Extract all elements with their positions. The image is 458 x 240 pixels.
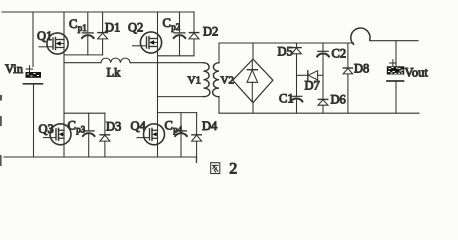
svg-text:Vout: Vout: [405, 66, 429, 80]
capacitor Cp3: [83, 113, 95, 157]
transistor Q3: [44, 124, 72, 145]
wire output top rail left: [219, 42, 354, 44]
capacitor C2: [317, 51, 329, 56]
wire node B leg: [157, 47, 159, 131]
wire Q2 drain: [157, 12, 159, 39]
svg-text:V1: V1: [188, 75, 201, 87]
capacitor C1: [291, 96, 303, 101]
label Cp4: [165, 119, 183, 135]
diode D8: [343, 68, 353, 74]
wire branch3 top: [347, 43, 349, 68]
svg-text:D2: D2: [203, 25, 218, 39]
svg-text:2: 2: [229, 161, 237, 178]
svg-text:Lk: Lk: [107, 66, 122, 80]
caption figure 2: [211, 163, 220, 174]
wire cell1 tee: [64, 54, 103, 56]
svg-text:p2: p2: [171, 22, 180, 32]
inductor loop on rail: [351, 28, 370, 44]
diode D3: [100, 113, 110, 157]
svg-text:Q3: Q3: [39, 122, 54, 136]
wire Q1 drain: [63, 12, 65, 40]
rectifier bridge: [233, 59, 273, 103]
wire cell2 tee: [158, 55, 195, 57]
diode D2: [189, 12, 199, 56]
wire output top rail right: [370, 40, 418, 42]
capacitor Cp4: [175, 113, 187, 157]
wire input left rail upper: [32, 12, 34, 67]
svg-text:D4: D4: [202, 119, 218, 133]
wire branch3 bottom: [347, 74, 349, 113]
label Cp2: [163, 16, 181, 32]
capacitor Cp2: [174, 12, 186, 56]
wire input top rail: [2, 11, 194, 13]
svg-text:C1: C1: [279, 92, 294, 106]
wire branch1 middle: [296, 54, 298, 97]
svg-text:Vin: Vin: [5, 62, 24, 76]
svg-text:C: C: [163, 16, 171, 30]
diode D4: [192, 113, 202, 157]
label Cp3: [68, 119, 86, 135]
svg-text:D5: D5: [278, 45, 293, 59]
inductor Lk: [64, 58, 204, 63]
transistor Q4: [137, 124, 165, 145]
wire Q4 source: [157, 138, 159, 157]
wire Q3 source: [63, 138, 65, 157]
transistor Q1: [39, 33, 68, 54]
wire branch1 top: [296, 43, 298, 48]
svg-text:C2: C2: [332, 47, 347, 61]
diode D5: [292, 48, 302, 54]
svg-text:Q2: Q2: [128, 21, 143, 35]
label Cp1: [69, 17, 87, 33]
battery Vout: [387, 60, 404, 81]
wire bridge bottom lead: [252, 103, 254, 114]
wire primary bottom lead: [158, 96, 204, 98]
wire cell4 tee: [158, 112, 197, 114]
svg-text:C: C: [68, 119, 76, 133]
svg-text:D3: D3: [106, 120, 121, 134]
svg-text:Q4: Q4: [131, 119, 147, 133]
svg-text:D8: D8: [354, 62, 369, 76]
wire secondary bottom lead: [218, 97, 220, 114]
wire output bottom rail: [219, 112, 419, 114]
svg-text:V2: V2: [221, 75, 234, 87]
wire input bottom rail: [4, 156, 197, 158]
svg-text:p4: p4: [173, 125, 183, 135]
wire branch1 bottom: [296, 100, 298, 113]
wire load branch top: [395, 41, 397, 67]
svg-text:p3: p3: [76, 125, 86, 135]
wire input left rail lower: [33, 84, 35, 157]
battery Vin: [24, 66, 43, 84]
svg-text:D7: D7: [305, 79, 320, 93]
diode D1: [98, 12, 108, 55]
svg-text:C: C: [165, 119, 173, 133]
wire branch2 bottom: [322, 105, 324, 113]
wire cell3 tee: [64, 112, 105, 114]
svg-text:C: C: [69, 17, 77, 31]
diode D7: [297, 71, 324, 80]
wire branch2 middle: [322, 55, 324, 100]
transformer secondary V2: [213, 63, 219, 97]
wire bridge top lead: [252, 43, 254, 59]
svg-text:D6: D6: [331, 93, 346, 107]
wire secondary top lead: [218, 43, 220, 63]
transistor Q2: [133, 32, 162, 53]
wire load branch bottom: [395, 81, 397, 113]
transformer primary V1: [204, 63, 210, 97]
wire branch2 top: [322, 43, 324, 51]
diode D6: [318, 99, 328, 105]
capacitor Cp1: [82, 12, 94, 55]
wire node A leg: [63, 48, 65, 131]
svg-text:Q1: Q1: [37, 29, 52, 43]
svg-text:D1: D1: [105, 21, 120, 35]
svg-text:p1: p1: [78, 23, 87, 33]
